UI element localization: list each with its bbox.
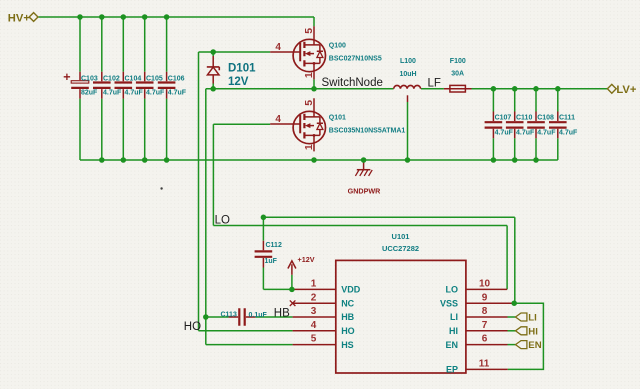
svg-text:Q101: Q101 [329, 115, 346, 122]
ground GNDPWR [348, 160, 382, 196]
wire EN stub [508, 344, 516, 346]
svg-text:HB: HB [341, 312, 354, 322]
hierarchical label EN [516, 340, 542, 351]
wire C110 verticals [514, 89, 516, 160]
wire C111 verticals [557, 89, 559, 160]
svg-text:4.7uF: 4.7uF [495, 129, 514, 136]
svg-text:BSC035N10NS5ATMA1: BSC035N10NS5ATMA1 [329, 128, 406, 135]
pin 3 HB [293, 306, 355, 322]
svg-text:5: 5 [303, 100, 315, 106]
inductor L100 [394, 58, 421, 102]
svg-text:4: 4 [275, 42, 281, 53]
wire +12V stub [291, 275, 293, 290]
diode D101 zener 12V [207, 56, 256, 88]
svg-text:NC: NC [341, 298, 354, 308]
pin 2 NC with no-connect X [290, 292, 355, 308]
wire LO net vertical from Q101 gate [212, 124, 214, 225]
capacitor C112 [255, 241, 282, 268]
hierarchical label HI [516, 326, 539, 337]
svg-text:8: 8 [482, 306, 488, 317]
svg-text:EN: EN [445, 340, 458, 350]
svg-text:4.7uF: 4.7uF [146, 89, 165, 96]
svg-text:C104: C104 [125, 75, 142, 82]
svg-text:D101: D101 [228, 63, 256, 75]
wire HS net vertical and horizontal [206, 89, 293, 345]
wire C104 verticals [122, 17, 124, 160]
capacitor C102 [93, 72, 122, 99]
capacitor C113 [221, 308, 268, 326]
svg-text:1: 1 [303, 72, 315, 78]
svg-text:4.7uF: 4.7uF [537, 129, 556, 136]
svg-text:4.7uF: 4.7uF [559, 129, 578, 136]
svg-text:HI: HI [449, 326, 458, 336]
wire C102 verticals [101, 17, 103, 160]
svg-text:F100: F100 [450, 58, 466, 65]
svg-text:LF: LF [428, 78, 441, 90]
svg-text:VDD: VDD [341, 285, 361, 295]
junction dots misc [203, 215, 517, 320]
svg-text:1uF: 1uF [265, 258, 278, 265]
wire Q100 drain to top bus [313, 17, 315, 26]
wire Q101 gate line [213, 123, 270, 125]
pin 10 LO [446, 279, 508, 295]
svg-text:HO: HO [341, 326, 355, 336]
wire C103 verticals [79, 17, 81, 160]
svg-text:82uF: 82uF [81, 89, 98, 96]
hierarchical label LV+ [607, 84, 636, 96]
svg-text:C105: C105 [146, 75, 163, 82]
svg-text:9: 9 [482, 292, 488, 303]
svg-text:11: 11 [479, 359, 490, 370]
svg-text:GNDPWR: GNDPWR [348, 187, 382, 196]
svg-text:HO: HO [184, 321, 201, 333]
wire Q100 gate line [199, 51, 271, 53]
op-amp U1 : IC U101 UCC27282 body [336, 232, 466, 373]
capacitor C105 [136, 72, 165, 99]
svg-text:4: 4 [311, 320, 317, 331]
svg-text:4.7uF: 4.7uF [125, 89, 144, 96]
power +12V [288, 255, 315, 275]
pin 4 HO [293, 320, 355, 336]
wire C107 verticals [492, 89, 494, 160]
wire SwitchNode bus [206, 88, 394, 90]
wire LO net horizontal to U101 [213, 226, 507, 290]
wire C106 verticals [166, 17, 168, 160]
pin 11 EP [446, 359, 508, 375]
wire D101 cathode stub [212, 52, 214, 56]
junction dots SwitchNode and LV line [210, 49, 560, 91]
svg-text:EN: EN [528, 340, 541, 351]
transistor Q100 [270, 26, 382, 79]
svg-text:10uH: 10uH [400, 71, 417, 78]
svg-text:HV+: HV+ [8, 12, 31, 24]
junction dots top bus [77, 14, 169, 20]
capacitor C104 [115, 72, 144, 99]
pin 9 VSS [440, 292, 514, 308]
pin 8 LI [450, 306, 508, 322]
pin 6 EN [445, 334, 507, 350]
pin 7 HI [449, 320, 508, 336]
svg-text:2: 2 [311, 292, 317, 303]
svg-text:4.7uF: 4.7uF [168, 89, 187, 96]
wire C112 top stub [262, 217, 264, 240]
svg-text:4: 4 [275, 114, 281, 125]
wire C113 left stub [206, 316, 229, 318]
capacitor C108 [527, 112, 556, 139]
capacitor C103 [64, 72, 98, 99]
svg-text:BSC027N10NS5: BSC027N10NS5 [329, 56, 382, 63]
wire HV+ top bus [39, 16, 315, 18]
transistor Q101 [270, 98, 405, 151]
wire ground bus [80, 159, 558, 161]
wire VSS net to C112 [263, 217, 514, 303]
fuse F100 [444, 58, 472, 92]
svg-text:VSS: VSS [440, 298, 458, 308]
svg-text:C102: C102 [103, 75, 120, 82]
hierarchical label LI [516, 313, 538, 324]
svg-text:C113: C113 [221, 311, 237, 318]
capacitor C111 [549, 112, 578, 139]
svg-text:0.1uF: 0.1uF [249, 312, 268, 319]
svg-text:1: 1 [303, 144, 315, 150]
wire C108 verticals [535, 89, 537, 160]
wire LI stub [508, 316, 516, 318]
svg-text:LI: LI [528, 313, 537, 324]
svg-text:1: 1 [311, 279, 317, 290]
svg-text:12V: 12V [228, 76, 249, 88]
pin 1 VDD [292, 279, 361, 295]
svg-text:30A: 30A [451, 71, 464, 78]
wire C105 verticals [144, 17, 146, 160]
svg-text:SwitchNode: SwitchNode [322, 77, 383, 89]
svg-text:C103: C103 [81, 75, 98, 82]
svg-text:EP: EP [446, 365, 458, 375]
stray dot [160, 187, 162, 189]
wire L100 to F100 [421, 88, 444, 90]
svg-text:HI: HI [528, 326, 538, 337]
svg-text:HB: HB [274, 308, 290, 320]
wire L100 tap to ground bus [407, 102, 409, 160]
svg-text:LO: LO [446, 285, 459, 295]
pin 5 HS [293, 334, 354, 350]
svg-text:5: 5 [311, 334, 317, 345]
svg-text:4.7uF: 4.7uF [103, 89, 122, 96]
wire C113 right to HB pin [255, 316, 292, 318]
wire HO net vertical and horizontal [199, 52, 293, 331]
wire C112 bottom to VDD [263, 268, 292, 290]
svg-text:LI: LI [450, 312, 458, 322]
capacitor C110 [506, 112, 535, 139]
svg-text:HS: HS [341, 340, 354, 350]
svg-text:C112: C112 [266, 242, 282, 249]
hierarchical label HV+ [8, 12, 38, 24]
svg-text:LV+: LV+ [616, 84, 636, 96]
wire Q100 source to SwitchNode [313, 79, 315, 89]
svg-text:C106: C106 [168, 75, 185, 82]
svg-text:L100: L100 [400, 58, 416, 65]
svg-text:7: 7 [482, 320, 488, 331]
capacitor C107 [485, 112, 514, 139]
svg-text:+12V: +12V [298, 255, 315, 264]
junction dots ground bus [99, 157, 539, 163]
capacitor C106 [158, 72, 187, 99]
svg-text:C111: C111 [559, 115, 575, 122]
svg-text:U101: U101 [392, 232, 410, 241]
svg-text:C108: C108 [537, 115, 554, 122]
svg-text:UCC27282: UCC27282 [382, 244, 419, 253]
svg-text:3: 3 [311, 306, 317, 317]
wire EP to VSS loop [508, 303, 544, 369]
svg-text:4.7uF: 4.7uF [516, 129, 535, 136]
wire HI stub [508, 330, 516, 332]
svg-text:6: 6 [482, 334, 488, 345]
svg-text:5: 5 [303, 28, 315, 34]
svg-text:Q100: Q100 [329, 43, 346, 50]
svg-text:C110: C110 [516, 115, 532, 122]
svg-text:10: 10 [479, 279, 491, 290]
svg-text:LO: LO [215, 215, 230, 227]
wire D101 anode stub [212, 84, 214, 89]
wire F100 to LV+ [472, 88, 608, 90]
svg-text:C107: C107 [495, 115, 512, 122]
